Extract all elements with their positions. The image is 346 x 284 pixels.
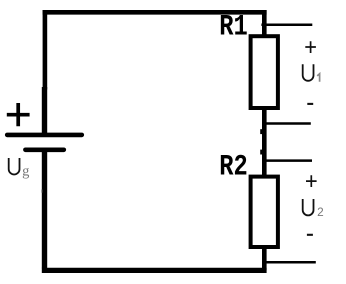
svg-text:R1: R1	[219, 10, 248, 44]
wire right rail (through R1 and R2, covered by resistor bodies)	[262, 10, 267, 270]
wire left rail lower segment above battery	[42, 87, 47, 135]
wire left rail upper segment (battery + side)	[43, 10, 48, 90]
wire sense lead U2 top (R2 pin 1)	[264, 159, 312, 162]
battery polarity plus sign	[7, 103, 30, 126]
wire sense lead U1 top (R1 pin 1)	[261, 24, 312, 27]
wire left rail below battery (node C: battery - side)	[42, 150, 47, 268]
wire sense lead U1 bottom (R1 pin 2)	[264, 122, 311, 125]
polarity plus for U1	[305, 41, 316, 53]
svg-text:R2: R2	[219, 150, 248, 184]
resistor R2 body	[251, 177, 278, 247]
node B junction nub upper (between R1 and R2)	[260, 129, 262, 134]
svg-text:g: g	[22, 164, 29, 180]
label U1 letter U	[303, 64, 314, 81]
svg-text:2: 2	[317, 205, 324, 219]
battery Ug long plate (positive terminal)	[7, 133, 82, 138]
label U1 subscript 1	[317, 74, 319, 82]
polarity minus for U2	[307, 234, 313, 236]
wire bottom rail (node C: battery - to R2)	[42, 268, 267, 273]
node B junction nub lower (between R1 and R2)	[260, 150, 262, 155]
polarity plus for U2	[306, 175, 317, 187]
resistor R1 body	[251, 36, 278, 108]
battery Ug short plate (negative terminal)	[25, 148, 63, 153]
label U2 letter U	[303, 199, 314, 215]
wire top rail (node A: battery + to R1)	[43, 10, 267, 15]
polarity minus for U1	[307, 103, 313, 105]
junction nub on left rail	[42, 190, 43, 193]
wire sense lead U2 bottom (R2 pin 2)	[264, 261, 316, 264]
label Ug letter U	[9, 158, 20, 174]
